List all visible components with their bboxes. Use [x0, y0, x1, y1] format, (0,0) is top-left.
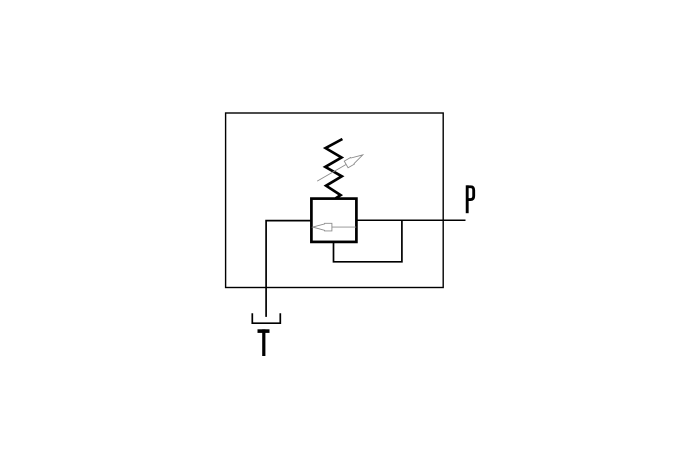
- valve body square: [311, 199, 356, 242]
- wire: pilot feedback loop: [334, 220, 402, 262]
- wire: pressure port P line: [356, 219, 465, 221]
- wire: left lead from valve to tank branch: [266, 221, 311, 317]
- flow path line inside valve: [330, 226, 356, 228]
- valve enclosure boundary box: [226, 113, 444, 288]
- flow path arrowhead (open, pointing left): [313, 223, 332, 231]
- adjustment arrowhead (open): [344, 152, 364, 168]
- spring: [325, 139, 342, 198]
- label P: [467, 185, 473, 213]
- label T: [258, 329, 270, 356]
- adjustment arrow shaft: [317, 155, 363, 181]
- tank symbol: [252, 313, 280, 323]
